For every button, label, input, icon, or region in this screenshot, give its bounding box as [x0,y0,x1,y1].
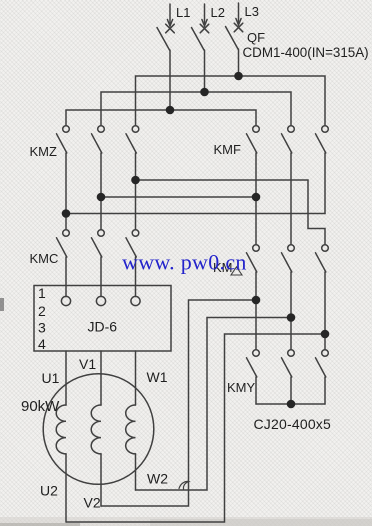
svg-text:CJ20-400x5: CJ20-400x5 [254,416,332,432]
svg-text:4: 4 [38,336,46,352]
svg-text:1: 1 [38,285,46,301]
svg-text:L2: L2 [211,5,225,20]
svg-text:L1: L1 [176,5,190,20]
svg-text:2: 2 [38,303,46,319]
svg-text:U1: U1 [42,370,60,386]
svg-text:V1: V1 [79,356,96,372]
svg-text:KMZ: KMZ [30,144,58,159]
svg-text:www. pw0.cn: www. pw0.cn [122,250,247,275]
svg-text:3: 3 [38,320,46,336]
svg-text:U2: U2 [40,483,58,499]
svg-text:QF: QF [247,30,265,45]
svg-text:JD-6: JD-6 [88,319,118,335]
svg-text:W2: W2 [147,471,168,487]
svg-text:CDM1-400(IN=315A): CDM1-400(IN=315A) [243,45,369,60]
svg-text:KMC: KMC [30,251,59,266]
svg-text:V2: V2 [84,495,101,511]
svg-text:KMF: KMF [214,142,242,157]
svg-text:L3: L3 [245,4,259,19]
svg-text:90kW: 90kW [21,398,60,415]
svg-text:W1: W1 [147,369,168,385]
svg-text:KMY: KMY [227,380,256,395]
